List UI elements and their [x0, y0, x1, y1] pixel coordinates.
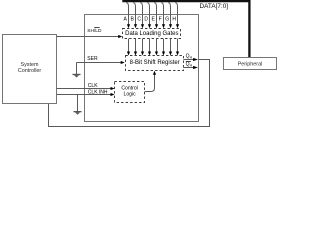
wire bus drop D — [147, 3, 151, 29]
wire bus drop H — [175, 3, 179, 29]
svg-text:CLK INH: CLK INH — [88, 90, 108, 96]
wire QH output — [184, 58, 198, 61]
wire clock to shift register — [145, 71, 157, 92]
wire gate-to-register G — [169, 39, 172, 56]
wire gate-to-register F — [162, 39, 165, 56]
wire SER — [77, 61, 125, 64]
wire gate-to-register E — [155, 39, 158, 56]
wire CLK INH — [57, 93, 115, 96]
ground (SER tied low) — [73, 63, 81, 78]
svg-text:SH/LD: SH/LD — [87, 28, 102, 34]
svg-text:H: H — [172, 17, 176, 23]
wire gate-to-register H — [176, 39, 179, 56]
label QH-bar — [186, 62, 193, 68]
wire QH-bar output — [184, 66, 198, 69]
svg-text:C: C — [137, 17, 141, 23]
svg-text:Peripheral: Peripheral — [238, 62, 263, 68]
bus DATA[7:0] — [122, 1, 249, 57]
svg-text:DATA[7:0]: DATA[7:0] — [200, 3, 229, 10]
label QH — [186, 53, 193, 59]
svg-text:Logic: Logic — [124, 92, 137, 98]
wire gate-to-register B — [134, 39, 137, 56]
ground (CLK INH tied low) — [74, 95, 82, 115]
svg-text:Data Loading Gates: Data Loading Gates — [125, 31, 178, 37]
wire bus drop A — [126, 3, 130, 29]
svg-text:8-Bit Shift Register: 8-Bit Shift Register — [130, 60, 180, 66]
svg-text:F: F — [159, 17, 162, 23]
svg-text:CLK: CLK — [88, 83, 98, 89]
label SH/LD (LD active-low overline) — [87, 28, 102, 34]
box U2 System Controller — [3, 35, 57, 104]
wire gate-to-register D — [148, 39, 151, 56]
wire CLK — [57, 87, 115, 90]
svg-text:D: D — [144, 17, 148, 23]
wire SH/LD — [57, 35, 123, 38]
wire gate-to-register C — [141, 39, 144, 56]
block Data Loading Gates — [123, 29, 181, 39]
wire bus drop F — [161, 3, 165, 29]
wire QH feedback to controller — [49, 60, 210, 127]
wire gate-to-register A — [127, 39, 130, 56]
wire bus drop G — [168, 3, 172, 29]
box U3 Peripheral — [224, 58, 277, 70]
wire bus drop E — [154, 3, 158, 29]
svg-text:G: G — [165, 17, 169, 23]
svg-text:SER: SER — [87, 56, 98, 62]
box U1 shift-register IC outline — [85, 15, 199, 122]
wire bus drop B — [133, 3, 137, 29]
wire bus drop C — [140, 3, 144, 29]
svg-text:Controller: Controller — [18, 68, 42, 74]
block 8-Bit Shift Register — [126, 56, 184, 71]
block Control Logic — [115, 82, 145, 103]
